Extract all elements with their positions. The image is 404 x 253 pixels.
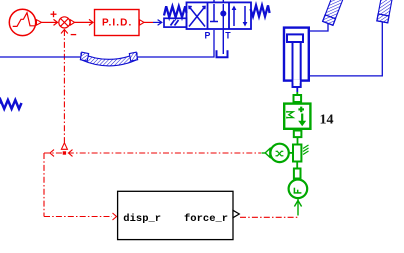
proportional solenoid (left) xyxy=(164,18,187,27)
directional valve body xyxy=(187,2,252,29)
box output triangle xyxy=(233,210,239,217)
F glyph (rotated 90deg CCW, drawn as paths) xyxy=(294,188,302,194)
P.I.D. controller block xyxy=(95,10,140,36)
link rod->mass (green) xyxy=(296,92,298,95)
wire summer->PID xyxy=(75,19,93,25)
T line valve->tank xyxy=(222,4,224,54)
mask gap in cylinder bottom for rod xyxy=(293,80,301,84)
right return spring xyxy=(251,5,270,16)
arrow up into summer xyxy=(61,30,68,34)
left arrow chevron right of junction xyxy=(69,150,73,157)
vertical dash-dot x=44 xyxy=(43,153,45,217)
elastic end stop (rect with wall hatch) xyxy=(293,145,301,162)
box output dash-dot to force sensor xyxy=(240,216,298,218)
plus sign xyxy=(51,11,57,17)
horizontal dash-dot feedback line y=153 xyxy=(44,150,261,157)
flexible hose 1 (clipped at top) xyxy=(323,0,347,25)
svg-text:P.I.D.: P.I.D. xyxy=(102,18,132,29)
signal source (waveform generator) xyxy=(9,9,41,35)
summing junction xyxy=(59,17,70,28)
svg-text:P: P xyxy=(205,31,211,41)
force sensor top port xyxy=(294,169,301,179)
force sensor F xyxy=(289,180,308,199)
left edge spring (clipped) xyxy=(0,100,22,109)
feedback dash-dot from summer down xyxy=(61,30,68,150)
mass gravity arrow xyxy=(298,114,306,127)
A/B lines above valve (clipped top) xyxy=(213,0,215,2)
link elastic stop->force sensor xyxy=(296,162,298,169)
mass top port xyxy=(294,95,302,102)
junction dot xyxy=(63,151,66,154)
svg-text:disp_r: disp_r xyxy=(123,213,161,225)
svg-text:T: T xyxy=(225,31,231,41)
flexible hose (sagging, hatched) xyxy=(80,52,137,66)
supply pipe line y=57 xyxy=(0,56,82,58)
displacement sensor x xyxy=(270,144,293,162)
mass bottom port xyxy=(294,131,302,138)
PID output triangle xyxy=(140,20,145,25)
cylinder port A pipe to hose1 xyxy=(310,24,329,32)
x glyph (serif x drawn as paths) xyxy=(276,151,284,156)
hollow up triangle above junction xyxy=(61,143,67,150)
rod lower stub blue xyxy=(296,87,298,92)
tank symbol xyxy=(217,50,228,57)
valve middle square: blocked port + dot xyxy=(210,4,226,22)
left arrow chevron near corner xyxy=(50,150,54,157)
data box xyxy=(118,191,233,239)
valve square 1 crossed arrows xyxy=(189,6,205,26)
mass plus sign xyxy=(298,107,304,113)
wire source->summer xyxy=(42,19,58,25)
sensor output triangle (left) xyxy=(265,149,270,158)
pipe hose->valve P xyxy=(137,30,214,57)
flexible hose 2 (clipped at top) xyxy=(377,0,395,23)
link mass->elastic stop xyxy=(297,137,299,144)
hydraulic cylinder xyxy=(284,28,309,87)
source output port triangle xyxy=(37,20,42,25)
left return spring above solenoid xyxy=(164,6,187,17)
wall hatch marks xyxy=(303,145,309,155)
sensor output stub xyxy=(262,152,266,154)
svg-text:force_r: force_r xyxy=(184,213,228,225)
valve square 3 up/down arrows xyxy=(232,6,248,27)
force input line with up arrow xyxy=(294,199,301,216)
mass block (body 14) xyxy=(284,104,310,129)
cylinder port B pipe to hose2 xyxy=(310,22,383,76)
svg-text:14: 14 xyxy=(320,113,334,128)
minus sign xyxy=(71,34,77,36)
bottom dash-dot to box input xyxy=(44,213,117,220)
mass M glyph (rotated M drawn as polyline) xyxy=(287,111,293,119)
wire PID->valve (red then blue with arrow) xyxy=(144,21,153,23)
summer output triangle xyxy=(70,20,74,25)
